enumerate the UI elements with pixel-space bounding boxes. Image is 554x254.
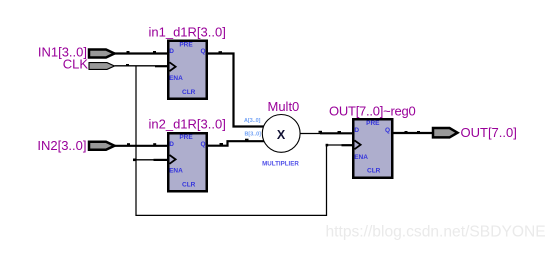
svg-text:CLR: CLR — [182, 182, 196, 189]
svg-text:A[3..0]: A[3..0] — [244, 118, 261, 124]
svg-text:D: D — [354, 127, 359, 134]
svg-text:in1_d1R[3..0]: in1_d1R[3..0] — [149, 25, 226, 40]
svg-text:ENA: ENA — [354, 154, 368, 161]
svg-text:CLR: CLR — [182, 89, 196, 96]
svg-text:OUT[7..0]~reg0: OUT[7..0]~reg0 — [329, 103, 415, 118]
svg-text:Q: Q — [201, 141, 206, 148]
svg-text:CLR: CLR — [367, 168, 381, 175]
svg-text:ENA: ENA — [169, 167, 183, 174]
svg-text:X: X — [277, 128, 286, 142]
svg-text:OUT[7..0]: OUT[7..0] — [461, 125, 517, 140]
svg-text:in2_d1R[3..0]: in2_d1R[3..0] — [149, 117, 226, 132]
svg-text:MULTIPLIER: MULTIPLIER — [262, 160, 299, 167]
svg-text:PRE: PRE — [366, 120, 380, 127]
svg-text:Mult0: Mult0 — [268, 99, 300, 114]
svg-text:IN2[3..0]: IN2[3..0] — [37, 138, 86, 153]
svg-text:Q: Q — [385, 127, 390, 134]
svg-text:PRE: PRE — [179, 41, 193, 48]
svg-text:D: D — [169, 141, 174, 148]
svg-text:B[3..0]: B[3..0] — [245, 132, 262, 138]
svg-text:Q: Q — [201, 48, 206, 55]
svg-text:CLK: CLK — [63, 56, 89, 71]
svg-text:https://blog.csdn.net/SBDYONE: https://blog.csdn.net/SBDYONE — [326, 224, 546, 241]
svg-text:PRE: PRE — [179, 134, 193, 141]
svg-text:ENA: ENA — [169, 75, 183, 82]
svg-text:D: D — [169, 48, 174, 55]
